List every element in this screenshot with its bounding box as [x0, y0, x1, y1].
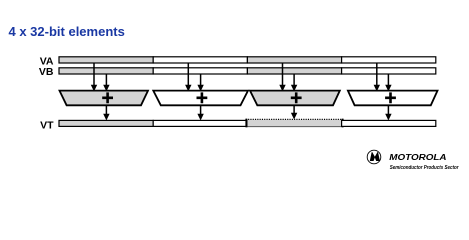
register VA segment 4 (white) — [342, 57, 436, 63]
adder 3 trapezoid (gray) — [250, 91, 340, 106]
register VB segment 4 (white) — [342, 68, 436, 74]
svg-text:VB: VB — [39, 66, 54, 78]
arrow VA to adder 1 — [91, 63, 97, 92]
adder 1 plus sign — [102, 92, 113, 103]
arrow VA to adder 3 — [279, 63, 285, 92]
arrow VB to adder 4 — [385, 74, 391, 92]
result VT segment 2 (white) — [153, 120, 247, 126]
svg-text:MOTOROLA: MOTOROLA — [389, 153, 447, 162]
register VA segment 1 (gray) — [59, 57, 153, 63]
register VA segment 3 (gray) — [247, 57, 341, 63]
register VB segment 1 (gray) — [59, 68, 153, 74]
arrow adder 4 to VT — [385, 105, 391, 120]
svg-text:Semiconductor Products Sector: Semiconductor Products Sector — [390, 165, 460, 171]
arrow VB to adder 1 — [103, 74, 109, 92]
adder 2 plus sign — [197, 92, 208, 103]
adder 4 plus sign — [385, 92, 396, 103]
arrow VB to adder 2 — [197, 74, 203, 92]
arrow adder 3 to VT — [291, 105, 297, 119]
arrow VA to adder 2 — [185, 63, 191, 92]
adder 4 trapezoid (white) — [348, 91, 438, 106]
register VB segment 3 (gray) — [247, 68, 341, 74]
register VA segment 2 (white) — [153, 57, 247, 63]
adder 2 trapezoid (white) — [153, 91, 248, 106]
svg-text:4 x 32-bit elements: 4 x 32-bit elements — [9, 24, 125, 39]
Motorola logo circle with batwing M emblem — [367, 150, 381, 164]
arrow adder 1 to VT — [103, 105, 109, 120]
arrow VB to adder 3 — [291, 74, 297, 92]
adder 1 trapezoid (gray) — [60, 91, 149, 106]
arrow VA to adder 4 — [374, 63, 380, 92]
result VT segment 3 (gray, dashed-top highlighted destination element) — [246, 119, 343, 128]
result VT segment 4 (white) — [342, 120, 436, 126]
result VT segment 1 (gray) — [59, 120, 153, 126]
svg-text:VT: VT — [40, 120, 54, 132]
register VB segment 2 (white) — [153, 68, 247, 74]
arrow adder 2 to VT — [197, 105, 203, 120]
adder 3 plus sign — [291, 92, 302, 103]
